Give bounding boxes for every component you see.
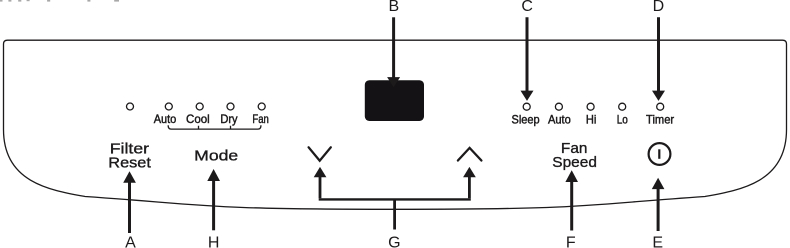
svg-text:Hi: Hi: [586, 112, 597, 126]
svg-text:G: G: [388, 234, 400, 248]
svg-text:Reset: Reset: [108, 154, 152, 171]
svg-text:E: E: [652, 234, 663, 248]
svg-text:Timer: Timer: [646, 112, 674, 126]
svg-text:Sleep: Sleep: [512, 112, 540, 126]
svg-text:Dry: Dry: [220, 112, 237, 126]
svg-text:Cool: Cool: [186, 112, 210, 126]
svg-text:H: H: [208, 234, 220, 248]
svg-text:Fan: Fan: [252, 112, 269, 126]
svg-text:Auto: Auto: [548, 112, 571, 126]
svg-text:Speed: Speed: [552, 154, 597, 171]
svg-text:A: A: [125, 234, 136, 248]
svg-text:F: F: [566, 234, 576, 248]
svg-text:Auto: Auto: [154, 112, 177, 126]
svg-text:B: B: [388, 0, 399, 15]
svg-text:D: D: [653, 0, 665, 15]
svg-text:Lo: Lo: [617, 112, 628, 126]
svg-text:Mode: Mode: [194, 148, 238, 165]
svg-text:C: C: [521, 0, 533, 15]
